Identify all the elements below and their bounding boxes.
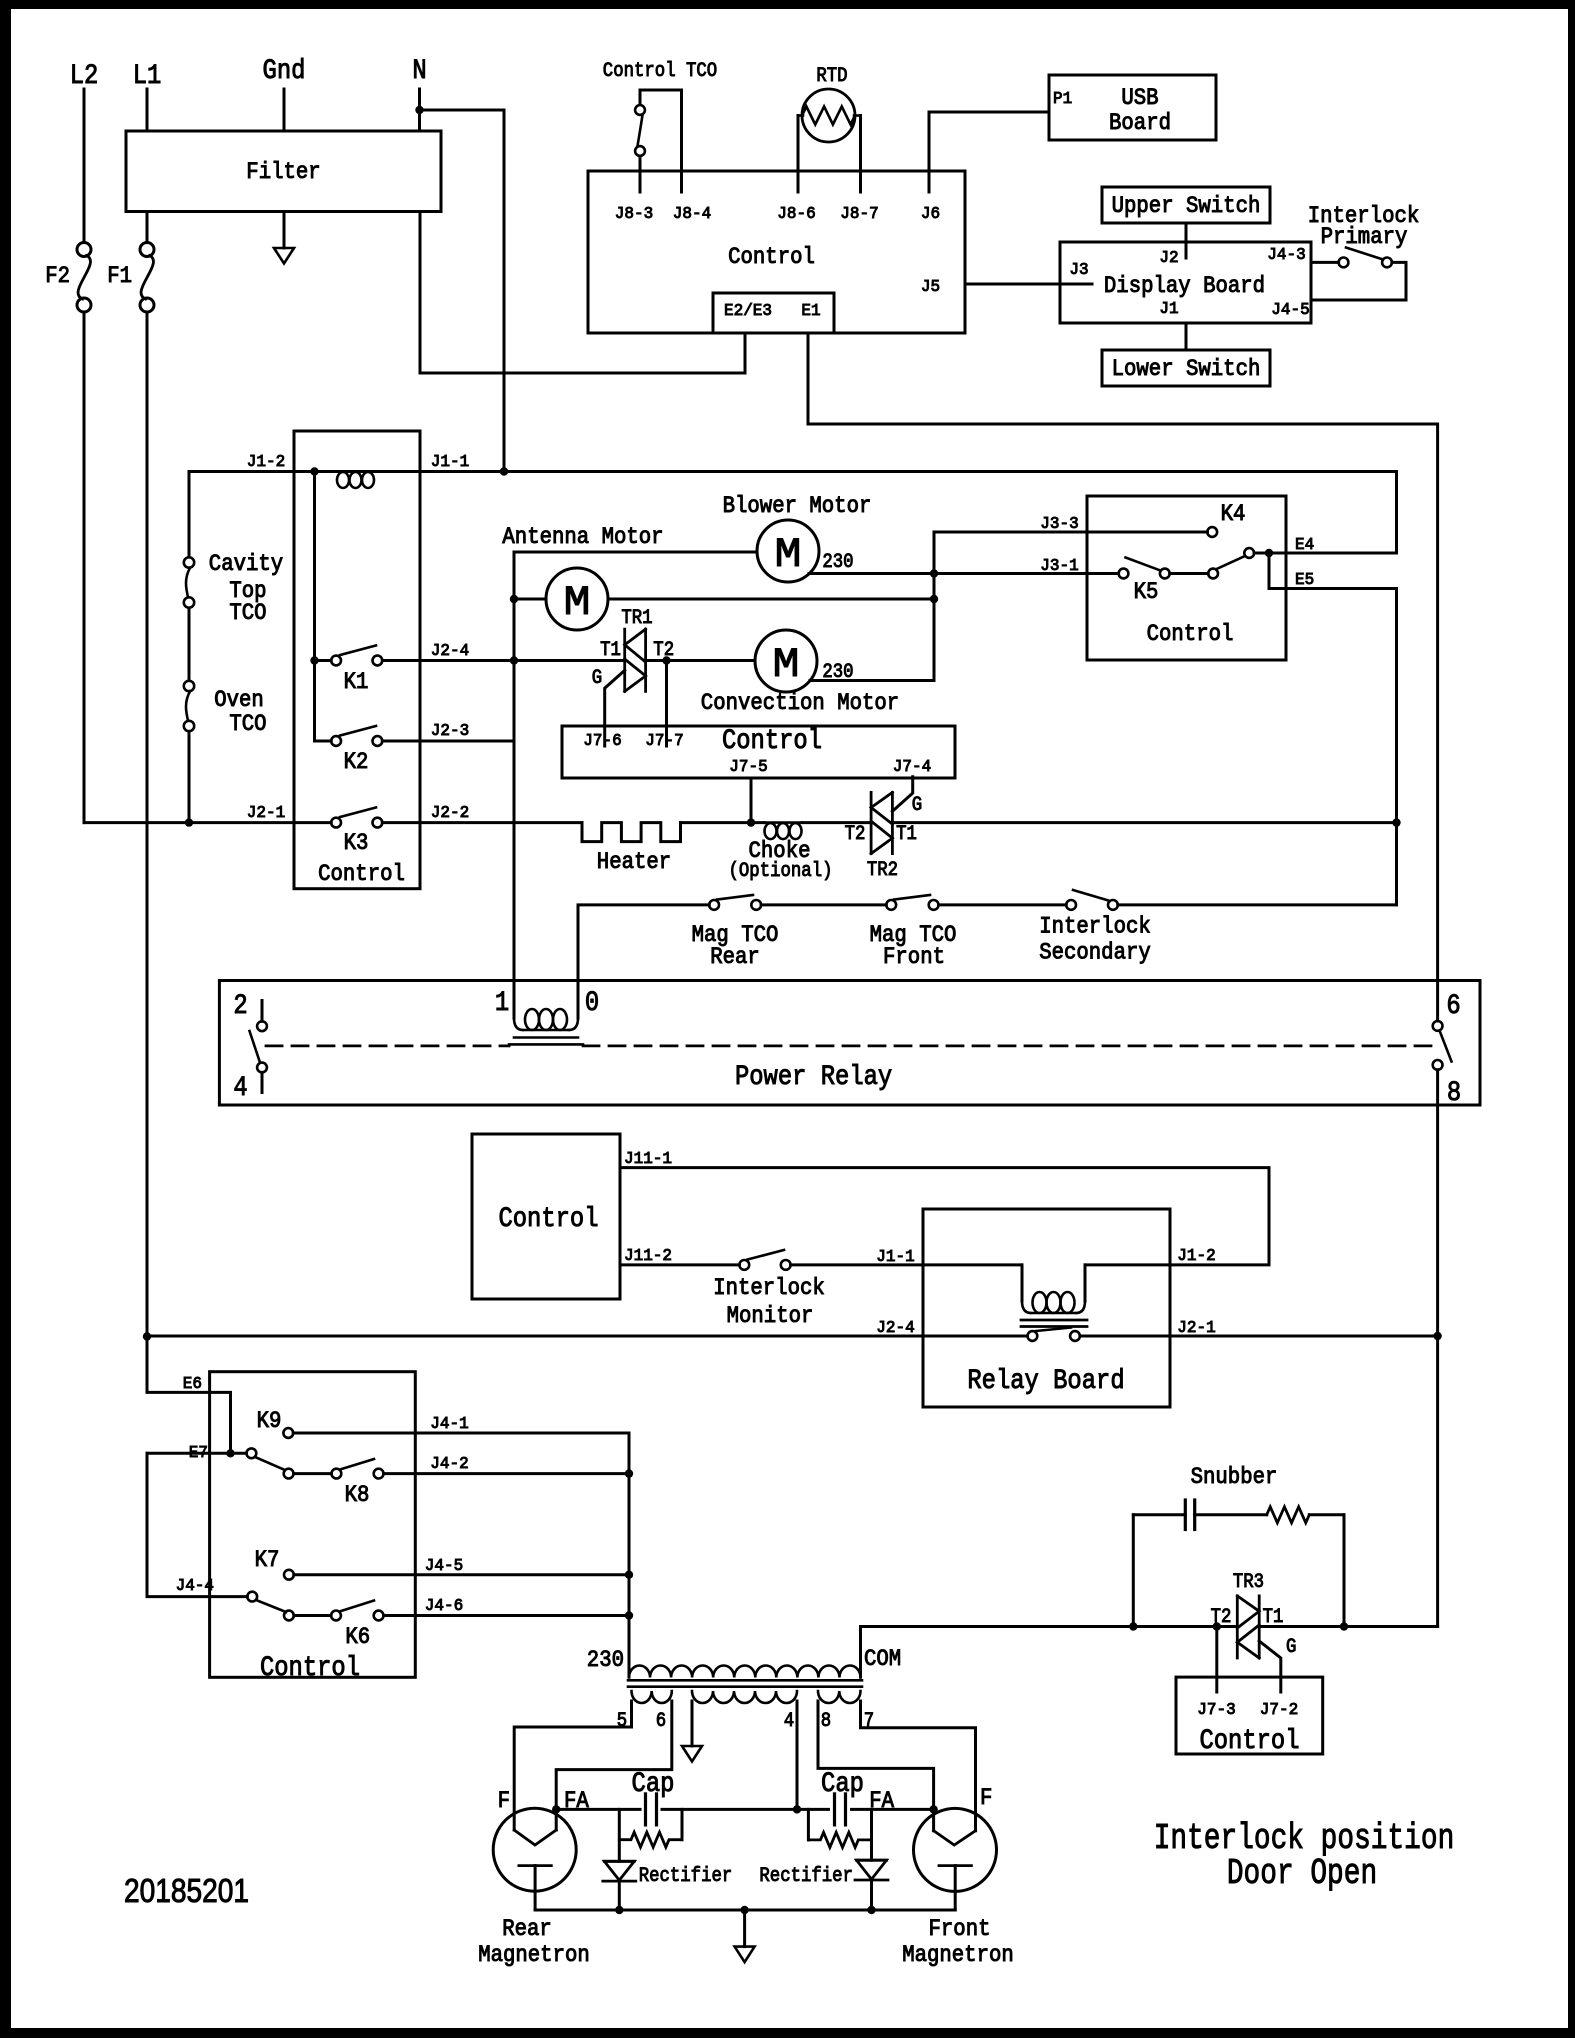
snubber top wire left: [1133, 1513, 1185, 1516]
transformer secondary 8-7: [818, 1691, 861, 1703]
svg-text:(Optional): (Optional): [729, 860, 833, 883]
ground symbol below filter: [274, 248, 294, 264]
svg-text:Heater: Heater: [597, 849, 671, 875]
interlock primary switch: [1339, 258, 1349, 268]
junction dot E7: [226, 1449, 234, 1457]
svg-text:Filter: Filter: [246, 159, 320, 185]
svg-text:J1-1: J1-1: [876, 1248, 914, 1267]
snubber left leg: [1132, 1515, 1135, 1627]
relay coil core bars: [514, 1036, 578, 1039]
wire COM lead up to TR3 row: [859, 1627, 862, 1678]
wire between mag TCOs: [761, 903, 886, 906]
relay board box: [923, 1209, 1170, 1407]
wire L1 to E6: [147, 1337, 231, 1454]
svg-text:230: 230: [587, 1647, 624, 1673]
svg-text:Interlock: Interlock: [1039, 913, 1151, 939]
svg-text:Secondary: Secondary: [1039, 940, 1151, 966]
svg-text:J1-1: J1-1: [431, 453, 469, 472]
triac TR3: [1236, 1596, 1239, 1658]
relay contact K3: [331, 818, 341, 828]
junction dot pin4: [793, 1805, 801, 1813]
svg-text:J7-6: J7-6: [583, 732, 621, 751]
svg-text:E6: E6: [183, 1375, 202, 1394]
relay coil primary: [513, 981, 516, 1018]
capacitor rear Cap: [644, 1794, 647, 1825]
svg-text:J7-4: J7-4: [893, 758, 931, 777]
junction dot front FA: [929, 1805, 937, 1813]
svg-text:Control: Control: [498, 1204, 598, 1235]
junction dot antenna feed: [510, 595, 518, 603]
svg-text:J8-7: J8-7: [840, 205, 878, 224]
svg-text:Board: Board: [1109, 110, 1171, 136]
svg-text:J2-3: J2-3: [431, 722, 469, 741]
svg-text:Control: Control: [722, 726, 822, 757]
snubber resistor: [1267, 1507, 1310, 1523]
snubber top wire right: [1309, 1513, 1344, 1516]
control box K6-K9: [210, 1372, 416, 1678]
wire heater to choke: [681, 821, 765, 824]
svg-text:6: 6: [656, 1710, 666, 1733]
svg-text:E1: E1: [801, 302, 820, 321]
svg-text:Control: Control: [260, 1653, 360, 1684]
wire E7 down to J4-4: [147, 1453, 247, 1596]
svg-text:J5: J5: [921, 278, 940, 297]
svg-text:J4-2: J4-2: [430, 1455, 468, 1474]
svg-text:Rear: Rear: [502, 1916, 552, 1942]
wire TR2 T1 to right side: [892, 821, 1396, 824]
svg-text:J3-1: J3-1: [1040, 557, 1078, 576]
wire center tap ground: [691, 1701, 694, 1746]
junction dot TR3 T2: [1213, 1622, 1221, 1630]
junction dot rear FA: [552, 1805, 560, 1813]
rear rectifier diode: [618, 1809, 621, 1861]
svg-text:J2-2: J2-2: [431, 804, 469, 823]
wire J8-3 stub: [639, 156, 642, 192]
wire interlock monitor to relay board J1-1: [791, 1263, 923, 1266]
magnetron bottom wire: [535, 1909, 955, 1912]
svg-text:Interlock: Interlock: [713, 1275, 825, 1301]
wire internal vertical to K1 K2: [313, 472, 316, 742]
wire blower motor left lead: [514, 552, 757, 981]
FA line middle segment: [662, 1808, 829, 1811]
fuse F1: [140, 243, 154, 257]
wire mag TCO front to interlock secondary: [939, 903, 1067, 906]
svg-text:J1: J1: [1159, 300, 1178, 319]
svg-text:M: M: [773, 641, 800, 689]
svg-text:Control TCO: Control TCO: [603, 60, 717, 83]
wire Gnd down to Filter: [283, 89, 286, 131]
relay contact K7: [284, 1570, 294, 1580]
svg-text:K2: K2: [344, 749, 369, 775]
junction dot antenna to K5 riser: [930, 595, 938, 603]
svg-text:1: 1: [495, 988, 509, 1019]
svg-text:Control: Control: [1199, 1726, 1299, 1757]
display board box: [1060, 242, 1311, 323]
svg-text:Display Board: Display Board: [1104, 273, 1265, 299]
wire E4 riser right side: [1395, 472, 1398, 554]
control box TR1 J7-6 J7-7: [562, 726, 955, 778]
svg-text:T1: T1: [896, 823, 917, 846]
svg-text:Control: Control: [1147, 621, 1234, 647]
junction dot snubber left: [1129, 1622, 1137, 1630]
svg-text:J11-2: J11-2: [624, 1247, 672, 1266]
svg-text:J4-1: J4-1: [430, 1415, 468, 1434]
svg-text:4: 4: [233, 1073, 247, 1104]
junction dot J4-5: [625, 1571, 633, 1579]
upper switch box: [1102, 187, 1270, 223]
svg-text:Control: Control: [318, 861, 405, 887]
svg-text:6: 6: [1446, 991, 1460, 1022]
junction dot J7-5: [747, 818, 755, 826]
snubber top wire middle: [1195, 1513, 1267, 1516]
junction dot J4-6: [625, 1611, 633, 1619]
wire J5 to display board J3: [965, 283, 1092, 286]
svg-text:Rectifier: Rectifier: [639, 1865, 733, 1888]
svg-text:Lower Switch: Lower Switch: [1112, 356, 1261, 382]
svg-text:J3: J3: [1069, 261, 1088, 280]
svg-text:Rear: Rear: [710, 944, 760, 970]
relay contact K8 row: [284, 1469, 294, 1479]
rear magnetron circle: [493, 1808, 576, 1891]
svg-text:K8: K8: [345, 1482, 370, 1508]
relay contact K9: [283, 1428, 293, 1438]
wire pin7 to front F: [861, 1701, 976, 1831]
svg-text:L1: L1: [133, 61, 162, 92]
wire J4-5: [294, 1573, 629, 1576]
wire TCO chain bottom: [188, 732, 191, 823]
wire choke to TR2: [802, 821, 871, 824]
svg-text:Cap: Cap: [632, 1769, 675, 1800]
wire antenna motor left lead: [514, 598, 546, 601]
heater element: [582, 823, 681, 842]
svg-text:J7-5: J7-5: [729, 758, 767, 777]
wire J4-2: [384, 1472, 630, 1475]
svg-text:K1: K1: [344, 669, 369, 695]
svg-text:E5: E5: [1295, 571, 1314, 590]
power relay box: [219, 981, 1480, 1106]
wire right riser down to interlock secondary row: [1395, 823, 1398, 905]
svg-text:J7-2: J7-2: [1260, 1701, 1298, 1720]
svg-text:Monitor: Monitor: [727, 1303, 814, 1329]
junction dot E4/E5 split: [1265, 549, 1273, 557]
wire J7-3 stub: [1215, 1627, 1218, 1693]
svg-text:Front: Front: [929, 1916, 991, 1942]
K8/K9 common: [247, 1448, 257, 1458]
svg-text:F: F: [498, 1788, 510, 1814]
svg-text:Door Open: Door Open: [1227, 1853, 1377, 1894]
wire RTD lead to J8-6: [797, 116, 800, 193]
junction dot TR1 T2: [662, 656, 670, 664]
wire contact 8 down to J2-1 and TR3 row: [1436, 1070, 1439, 1627]
svg-text:8: 8: [1447, 1078, 1461, 1109]
svg-text:T1: T1: [600, 639, 621, 662]
svg-text:J2: J2: [1159, 249, 1178, 268]
svg-text:5: 5: [617, 1710, 627, 1733]
svg-text:J1-2: J1-2: [247, 453, 285, 472]
capacitor front Cap: [833, 1794, 836, 1825]
svg-text:L2: L2: [70, 61, 99, 92]
wire convection motor right lead: [810, 532, 934, 681]
junction dot coil feed: [310, 467, 318, 475]
wire K2 left: [315, 740, 332, 743]
lower switch box: [1102, 350, 1270, 386]
front magnetron filament chevron: [934, 1831, 976, 1845]
filter ground stem: [283, 212, 286, 249]
svg-text:F1: F1: [107, 263, 132, 289]
junction dot J3-1: [930, 569, 938, 577]
svg-text:J2-4: J2-4: [431, 642, 469, 661]
svg-text:TR2: TR2: [867, 859, 898, 882]
svg-text:P1: P1: [1053, 90, 1072, 109]
svg-text:Antenna Motor: Antenna Motor: [502, 524, 663, 550]
svg-text:Rectifier: Rectifier: [759, 1865, 853, 1888]
svg-text:G: G: [912, 794, 922, 817]
wire K5 common to E4: [1254, 552, 1396, 555]
junction dot front rectifier: [867, 1906, 875, 1914]
wire pin6 to rear FA: [556, 1701, 672, 1830]
wire E1 down right and to right edge: [808, 333, 1438, 1021]
svg-text:4: 4: [784, 1710, 794, 1733]
svg-text:J8-3: J8-3: [615, 205, 653, 224]
svg-text:230: 230: [822, 551, 853, 574]
junction dot snubber right: [1340, 1622, 1348, 1630]
svg-text:J7-3: J7-3: [1197, 1701, 1235, 1720]
wire L2 below F2 down to J2-1 row: [83, 312, 86, 823]
wire J3-3 row: [935, 531, 1207, 534]
svg-text:Cavity: Cavity: [209, 551, 284, 577]
wire L2 down to fuse F2: [83, 89, 86, 243]
relay contact 2-4: [257, 1021, 267, 1031]
wire J2-1 row to right riser: [1080, 1335, 1438, 1338]
wire J2-4 row from L1: [147, 1335, 1028, 1338]
svg-text:K7: K7: [255, 1547, 280, 1573]
svg-text:Snubber: Snubber: [1191, 1464, 1278, 1490]
wire interlock primary loop to J4-5: [1311, 262, 1406, 300]
svg-text:Blower Motor: Blower Motor: [723, 493, 872, 519]
wire N to right and down to J1-1: [420, 110, 505, 472]
svg-text:Primary: Primary: [1321, 224, 1408, 250]
svg-text:Oven: Oven: [214, 687, 264, 713]
bottom ground symbol: [743, 1910, 746, 1947]
relay coil on J1-2: [337, 472, 349, 488]
front magnetron anode: [939, 1864, 971, 1867]
wire N down to Filter: [418, 89, 421, 131]
junction dot ground: [740, 1906, 748, 1914]
svg-text:K3: K3: [344, 830, 369, 856]
wire L1 down to Filter: [146, 89, 149, 131]
thermal cutout Oven TCO: [184, 681, 194, 691]
relay board core bars: [1021, 1319, 1087, 1322]
svg-text:J6: J6: [921, 205, 940, 224]
transformer secondary 5-6: [632, 1691, 672, 1703]
relay board coil wiring: [923, 1265, 1022, 1290]
junction dot rear rectifier: [615, 1906, 623, 1914]
svg-text:J4-3: J4-3: [1267, 246, 1305, 265]
svg-text:COM: COM: [864, 1646, 901, 1672]
svg-text:Front: Front: [883, 944, 945, 970]
wire J4-3 to interlock primary switch: [1311, 261, 1339, 264]
junction dot J2-1 right: [1433, 1332, 1441, 1340]
wire J11-1 to relay board J1-2 loop: [620, 1168, 1269, 1265]
svg-text:G: G: [592, 667, 602, 690]
svg-text:J8-4: J8-4: [673, 205, 711, 224]
svg-text:Control: Control: [728, 244, 815, 270]
svg-text:Gnd: Gnd: [263, 56, 306, 87]
control box interlock monitor: [472, 1134, 620, 1299]
wire relay coil pin0 riser: [578, 905, 709, 981]
relay contact K2: [331, 736, 341, 746]
svg-text:M: M: [564, 579, 591, 627]
svg-text:Convection Motor: Convection Motor: [701, 690, 899, 716]
svg-text:T2: T2: [845, 823, 866, 846]
junction dot J2-4 motor feed: [510, 656, 518, 664]
svg-text:J8-6: J8-6: [777, 205, 815, 224]
svg-text:E2/E3: E2/E3: [724, 302, 772, 321]
svg-text:K4: K4: [1221, 501, 1246, 527]
wire pin8 to front FA: [818, 1701, 934, 1831]
front rectifier diode: [870, 1809, 873, 1860]
wire J2-4 row to TR1: [382, 659, 624, 662]
wire J4-6: [384, 1614, 630, 1617]
junction dot TCO chain at J2-1: [185, 818, 193, 826]
relay contact K4: [1207, 527, 1217, 537]
svg-text:USB: USB: [1121, 85, 1158, 111]
wire J7-5 stub to choke line: [750, 778, 753, 823]
svg-text:N: N: [412, 56, 426, 87]
junction dot E5/TR2: [1392, 818, 1400, 826]
svg-text:T2: T2: [1211, 1606, 1232, 1629]
E2/E3 E1 sub box: [713, 293, 834, 333]
control TCO switch bracket: [640, 90, 682, 192]
wire antenna motor right lead: [608, 598, 934, 601]
svg-text:M: M: [775, 531, 802, 579]
wire pin5 to rear F: [514, 1701, 631, 1830]
svg-text:20185201: 20185201: [124, 1872, 249, 1909]
control TCO contact circles: [635, 105, 645, 115]
control box K4 K5: [1087, 496, 1286, 660]
USB board box: [1049, 75, 1216, 140]
triac TR1: [623, 629, 626, 691]
relay board contact: [1028, 1331, 1038, 1341]
wire K1 left: [315, 659, 332, 662]
transformer secondary center: [692, 1691, 797, 1703]
svg-text:Cap: Cap: [821, 1769, 864, 1800]
interlock monitor switch: [739, 1260, 749, 1270]
wire E7 row: [147, 1452, 247, 1455]
wire J11-2 to interlock monitor switch: [620, 1263, 739, 1266]
svg-text:G: G: [1286, 1636, 1296, 1659]
wire J1 stub: [1185, 323, 1188, 350]
control box (main): [588, 171, 965, 333]
svg-text:T1: T1: [1263, 1606, 1284, 1629]
gate lead TR1: [605, 670, 625, 746]
wire J1-2 row: [189, 470, 1397, 473]
relay contact K6 row: [284, 1611, 294, 1621]
transformer core bars: [628, 1679, 862, 1682]
rear magnetron anode: [519, 1864, 551, 1867]
rear magnetron filament chevron: [514, 1830, 556, 1845]
wire filter N output down and to E2/E3: [420, 212, 745, 374]
junction dot L1 J2-4: [143, 1332, 151, 1340]
front magnetron circle: [914, 1808, 997, 1891]
relay contact K5 row: [1119, 569, 1129, 579]
convection motor circle: [755, 630, 817, 692]
wire J2-3 to motor common vertical: [382, 740, 514, 743]
svg-text:Power Relay: Power Relay: [735, 1062, 892, 1093]
svg-text:K9: K9: [257, 1408, 282, 1434]
wire TR3 row left: [861, 1625, 1238, 1628]
snubber right leg: [1343, 1515, 1346, 1627]
svg-text:J4-5: J4-5: [1271, 301, 1309, 320]
svg-text:F2: F2: [45, 263, 70, 289]
svg-text:F: F: [980, 1785, 992, 1811]
gate lead TR3: [1259, 1641, 1281, 1692]
svg-text:J1-2: J1-2: [1177, 1247, 1215, 1266]
wire E5 jog: [1269, 553, 1397, 823]
relay contact 6-8: [1433, 1021, 1443, 1031]
K6/K7 common: [247, 1592, 257, 1602]
triac TR2: [870, 792, 873, 853]
svg-text:K6: K6: [345, 1624, 370, 1650]
wire RTD lead to J8-7: [859, 116, 862, 193]
svg-text:TR1: TR1: [621, 607, 652, 630]
junction dot J4-2: [625, 1469, 633, 1477]
wire J2-2 to heater: [382, 821, 582, 824]
svg-text:Magnetron: Magnetron: [478, 1942, 590, 1968]
svg-text:Relay Board: Relay Board: [967, 1366, 1124, 1397]
fuse F2: [77, 243, 91, 257]
svg-text:TR3: TR3: [1233, 1571, 1264, 1594]
svg-text:0: 0: [585, 988, 599, 1019]
transformer primary winding: [629, 1666, 861, 1678]
junction dot on N: [415, 106, 423, 114]
contact 4 stub: [261, 1072, 264, 1092]
choke coil: [765, 823, 777, 839]
control box K1 K2 K3: [294, 431, 420, 889]
filter box: [126, 131, 441, 212]
svg-text:J4-6: J4-6: [425, 1597, 463, 1616]
wire TR3 row right: [1259, 1625, 1437, 1628]
RTD circle with zigzag: [802, 89, 855, 142]
svg-text:2: 2: [233, 991, 247, 1022]
wire blower motor right lead J3-1 row: [809, 572, 1119, 575]
mag TCO rear switch: [709, 900, 719, 910]
svg-text:Magnetron: Magnetron: [902, 1942, 1014, 1968]
wire pin4 to FA line: [796, 1701, 799, 1809]
control box TR3: [1176, 1677, 1323, 1754]
relay contact K1: [331, 656, 341, 666]
wire J7-7 stub: [665, 661, 668, 747]
junction dot J1-1: [500, 467, 508, 475]
blower motor circle: [757, 520, 819, 582]
FA line right segment: [852, 1808, 934, 1811]
front cap bleeder resistor: [807, 1809, 810, 1840]
wire L1 long vertical down left side: [146, 312, 149, 1337]
wire TCO chain top: [188, 472, 191, 558]
wire J2 stub: [1185, 223, 1188, 258]
antenna motor circle: [546, 568, 608, 630]
wire J6 to USB board P1: [929, 112, 1049, 192]
svg-text:K5: K5: [1134, 579, 1159, 605]
svg-text:TCO: TCO: [229, 711, 266, 737]
svg-text:E7: E7: [189, 1444, 208, 1463]
wire filter output L1 to fuse F1: [146, 212, 149, 243]
dashed relay link line: [266, 1045, 509, 1048]
wire TCO chain middle: [188, 608, 191, 681]
svg-text:J4-5: J4-5: [425, 1557, 463, 1576]
contact 2 stub: [261, 1001, 264, 1022]
svg-text:Upper Switch: Upper Switch: [1112, 193, 1261, 219]
